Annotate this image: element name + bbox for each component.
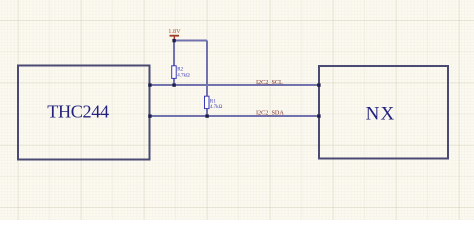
svg-text:1.8V: 1.8V	[168, 28, 181, 35]
svg-text:I2C2_SCL: I2C2_SCL	[256, 79, 283, 86]
svg-text:R2: R2	[177, 68, 183, 73]
svg-text:4.7kΩ: 4.7kΩ	[210, 105, 223, 110]
svg-text:R1: R1	[210, 99, 216, 104]
svg-text:NX: NX	[366, 103, 396, 124]
svg-text:I2C2_SDA: I2C2_SDA	[256, 110, 284, 117]
svg-text:4.7kΩ: 4.7kΩ	[177, 74, 190, 79]
svg-text:THC244: THC244	[47, 101, 109, 121]
